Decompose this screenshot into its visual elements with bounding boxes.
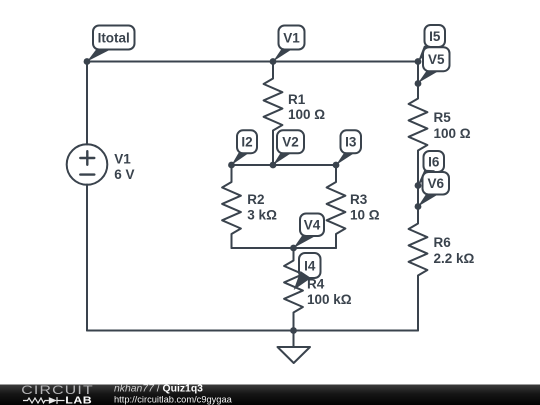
- node I2 junction: [228, 162, 235, 169]
- logo squiggle wire + diode: [23, 397, 65, 404]
- node V6 junction: [415, 203, 422, 210]
- node Itotal junction: [84, 58, 91, 65]
- svg-text:V4: V4: [304, 218, 321, 233]
- svg-text:V6: V6: [427, 176, 444, 191]
- node I5 junction: [415, 58, 422, 65]
- node V5 junction: [415, 80, 422, 87]
- svg-text:I6: I6: [428, 155, 440, 170]
- svg-text:http://circuitlab.com/c9gygaa: http://circuitlab.com/c9gygaa: [114, 394, 233, 404]
- svg-text:I4: I4: [304, 259, 316, 274]
- resistor R1: [264, 62, 283, 166]
- flag V2: [273, 130, 304, 165]
- svg-text:2.2 kΩ: 2.2 kΩ: [434, 251, 475, 266]
- wire left vertical top: [86, 62, 88, 145]
- node I3 junction: [333, 162, 340, 169]
- node ground junction: [290, 327, 297, 334]
- flag Itotal: [87, 26, 135, 62]
- svg-text:100 Ω: 100 Ω: [434, 126, 471, 141]
- ground: [293, 331, 295, 348]
- svg-text:10 Ω: 10 Ω: [350, 208, 380, 223]
- svg-text:100 kΩ: 100 kΩ: [307, 292, 352, 307]
- svg-text:6 V: 6 V: [114, 167, 134, 182]
- svg-text:V2: V2: [282, 134, 299, 149]
- svg-text:3 kΩ: 3 kΩ: [247, 208, 277, 223]
- node V2 junction: [270, 162, 277, 169]
- flag V4: [294, 214, 325, 249]
- svg-text:Itotal: Itotal: [98, 31, 130, 46]
- flag V5: [418, 47, 450, 83]
- node I6 junction: [415, 182, 422, 189]
- svg-text:I2: I2: [241, 134, 252, 149]
- resistor R3: [327, 165, 346, 248]
- svg-text:V1: V1: [283, 31, 300, 46]
- wire bottom of R2/R3: [232, 247, 337, 249]
- svg-text:100 Ω: 100 Ω: [288, 107, 325, 122]
- flag I3: [336, 130, 361, 165]
- svg-text:R5: R5: [434, 110, 452, 125]
- resistor R2: [222, 165, 241, 248]
- component value labels: [114, 92, 474, 307]
- svg-text:LAB: LAB: [65, 395, 92, 405]
- svg-text:V1: V1: [114, 152, 131, 167]
- resistor R6: [409, 186, 428, 331]
- resistor R4: [284, 248, 303, 331]
- resistor R5: [409, 62, 428, 186]
- svg-text:nkhan77 / Quiz1q3: nkhan77 / Quiz1q3: [114, 383, 203, 394]
- svg-text:R3: R3: [350, 192, 368, 207]
- svg-text:V5: V5: [428, 52, 445, 67]
- flags: [87, 25, 450, 290]
- logo diode triangle: [49, 397, 57, 404]
- svg-text:R6: R6: [434, 235, 452, 250]
- wire middle horizontal: [232, 164, 337, 166]
- svg-text:R2: R2: [247, 192, 264, 207]
- svg-text:I5: I5: [429, 29, 441, 44]
- flag I4: [294, 253, 321, 290]
- flag I6: [418, 151, 445, 186]
- wire bottom horizontal: [87, 330, 418, 332]
- node V4 junction: [290, 245, 297, 252]
- voltage source V1: [67, 144, 108, 185]
- flag I5: [418, 25, 445, 62]
- footer bar: [0, 385, 540, 405]
- flag V1: [273, 26, 305, 62]
- svg-text:R1: R1: [288, 92, 306, 107]
- node V1 flag junction: [270, 58, 277, 65]
- flag I2: [232, 130, 258, 165]
- wire left vertical bottom: [86, 185, 88, 331]
- flag V6: [418, 172, 449, 207]
- svg-text:I3: I3: [345, 134, 357, 149]
- wire top horizontal: [87, 61, 418, 63]
